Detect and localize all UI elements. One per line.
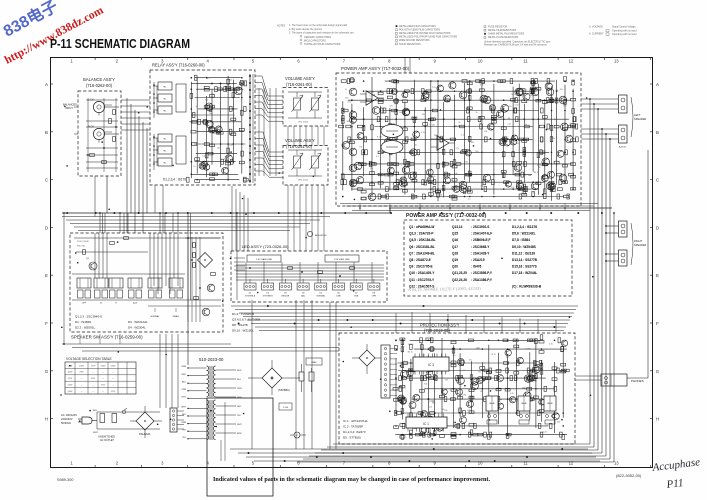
svg-text:1k: 1k	[476, 112, 478, 114]
power wires bottom	[230, 300, 600, 461]
power transformer T1 (510-2023-00)	[199, 357, 224, 440]
svg-text:A-B 0O: A-B 0O	[619, 146, 626, 149]
svg-text:LED ASS'Y (723-0026-00): LED ASS'Y (723-0026-00)	[242, 244, 289, 249]
block BALANCE ASS'Y (716-0262-00)	[78, 77, 121, 176]
svg-text:Q1,2,3 : 2SC3940-S: Q1,2,3 : 2SC3940-S	[75, 314, 102, 318]
wire bus left vertical	[127, 98, 147, 233]
svg-text:GRN: GRN	[181, 366, 186, 368]
wire bus mid horizontal	[231, 306, 578, 333]
svg-text:4.7k: 4.7k	[510, 393, 514, 395]
svg-text:10k: 10k	[529, 95, 532, 97]
speaker sw contact clusters	[77, 278, 183, 305]
svg-text:R4 1k: R4 1k	[538, 367, 543, 369]
svg-text:50/60Hz: 50/60Hz	[61, 421, 72, 425]
svg-text:FM 2.5A: FM 2.5A	[77, 245, 85, 248]
svg-text:1k: 1k	[415, 144, 417, 146]
svg-text:GRY: GRY	[237, 406, 242, 408]
svg-text:47u: 47u	[469, 360, 472, 362]
svg-text:0.22: 0.22	[543, 432, 547, 434]
balance assy wiring	[86, 98, 118, 172]
svg-text:1k: 1k	[463, 183, 465, 185]
svg-text:10k: 10k	[465, 161, 468, 163]
svg-text:0.22: 0.22	[348, 102, 352, 104]
svg-text:(822-3052-00): (822-3052-00)	[616, 473, 642, 478]
wires speaker-sw to transformer	[62, 212, 339, 461]
speaker and phones wires	[575, 99, 648, 380]
svg-text:0.1: 0.1	[524, 89, 527, 91]
svg-text:1M: 1M	[508, 118, 511, 120]
svg-text:P11: P11	[665, 477, 684, 491]
svg-text:PHONES: PHONES	[631, 379, 644, 383]
svg-text:: 2SC3902-S: : 2SC3902-S	[471, 225, 489, 229]
svg-text:D1,2,3,4: IS2473: D1,2,3,4: IS2473	[343, 430, 366, 434]
svg-text:R 120: R 120	[408, 344, 413, 346]
svg-text:Q3,4,5,6,7: SLF300B: Q3,4,5,6,7: SLF300B	[232, 318, 260, 322]
svg-text:330: 330	[452, 195, 455, 197]
svg-text:A: A	[45, 82, 48, 87]
svg-text:F: F	[45, 321, 48, 326]
svg-text:1k: 1k	[539, 167, 541, 169]
svg-text:680: 680	[499, 399, 502, 401]
svg-text:E: E	[656, 273, 659, 278]
svg-text:47u: 47u	[560, 89, 563, 91]
svg-text:VR1 10k-B: VR1 10k-B	[298, 122, 308, 124]
svg-text:: 2SB606-E,F: : 2SB606-E,F	[471, 238, 491, 242]
block POWER AMP ASS'Y (717-0032-00)	[336, 66, 581, 206]
svg-text:330: 330	[351, 122, 354, 124]
svg-text:Q7 : 2SA1349-BL: Q7 : 2SA1349-BL	[409, 251, 435, 255]
svg-text:47u: 47u	[206, 161, 209, 163]
svg-text:1k: 1k	[345, 89, 347, 91]
border frame and grid refs	[45, 58, 660, 468]
svg-text:WIRE WOUND RESISTORS: WIRE WOUND RESISTORS	[399, 39, 430, 42]
svg-text:2.2k: 2.2k	[432, 176, 436, 178]
svg-text:BALANCE ASS'Y: BALANCE ASS'Y	[83, 77, 115, 82]
svg-text:BLU: BLU	[182, 381, 187, 383]
svg-text:Q6 : 2SC3381-BL: Q6 : 2SC3381-BL	[409, 245, 435, 249]
svg-text:D2,3 : WZ091L: D2,3 : WZ091L	[75, 325, 96, 329]
svg-text:D1,2,3,4 : IS1376: D1,2,3,4 : IS1376	[512, 225, 537, 229]
svg-text:C 47: C 47	[369, 96, 373, 98]
svg-text:1k: 1k	[516, 401, 518, 403]
input arrows	[74, 106, 78, 108]
wires balance-relay	[121, 100, 150, 130]
svg-text:1M: 1M	[527, 382, 530, 384]
svg-text:D17,18 : WZ044L: D17,18 : WZ044L	[512, 271, 537, 275]
svg-text:2. Big spots denote the ground: 2. Big spots denote the ground.	[289, 28, 323, 31]
svg-text:560: 560	[524, 102, 527, 104]
svg-text:330: 330	[205, 100, 208, 102]
svg-text:22k: 22k	[453, 355, 456, 357]
svg-text:Q16: Q16	[452, 238, 458, 242]
svg-text:G: G	[45, 369, 49, 374]
svg-text:680: 680	[522, 387, 525, 389]
svg-text:POWER AMP ASS'Y (717-0032-00): POWER AMP ASS'Y (717-0032-00)	[341, 66, 410, 71]
svg-text:4.7k: 4.7k	[399, 188, 403, 190]
wire bus amp-to-protection	[340, 58, 598, 211]
svg-text:D1,2,3,4 : IS176: D1,2,3,4 : IS176	[163, 178, 186, 182]
svg-text:6.8k: 6.8k	[421, 99, 425, 101]
power amp dense circuitry	[339, 77, 578, 202]
svg-text:D1 : IS484N: D1 : IS484N	[75, 320, 91, 324]
balanced input jack A1	[88, 100, 119, 116]
block VOLUME ASS'Y lower (716-0261-00)	[283, 138, 328, 185]
svg-text:MICA CAPACITORS: MICA CAPACITORS	[304, 39, 326, 42]
relay RL2	[518, 396, 530, 424]
svg-text:HEAT: HEAT	[311, 361, 317, 364]
svg-text:FUSE RESISTOR: FUSE RESISTOR	[488, 26, 507, 29]
op-amp U1	[366, 91, 378, 105]
svg-text:D5 : S7TB(S): D5 : S7TB(S)	[343, 436, 361, 440]
svg-text:IC.1 : uPC1237HA: IC.1 : uPC1237HA	[343, 419, 368, 423]
svg-text:100: 100	[480, 391, 483, 393]
svg-text:: IS476: : IS476	[471, 265, 482, 269]
svg-text:SOLID RESISTORS: SOLID RESISTORS	[399, 43, 421, 46]
svg-text:220V: 220V	[68, 385, 73, 387]
svg-text:1M: 1M	[524, 175, 527, 177]
svg-text:SYSTEM A: SYSTEM A	[245, 295, 256, 298]
svg-text:C3 10: C3 10	[491, 354, 496, 356]
svg-text:R 120: R 120	[227, 79, 232, 81]
svg-text:250V 1/50UF: 250V 1/50UF	[77, 241, 90, 243]
svg-text:D: D	[656, 225, 659, 230]
svg-text:10k: 10k	[554, 119, 557, 121]
svg-text:560: 560	[511, 94, 514, 96]
phones jack	[601, 374, 644, 386]
protection bridge rectifier	[359, 350, 375, 366]
svg-text:D1,2 : TL5025-B: D1,2 : TL5025-B	[232, 312, 254, 316]
svg-text:IC.2 : TA7805P: IC.2 : TA7805P	[343, 425, 363, 429]
svg-text:(716-0261-00): (716-0261-00)	[286, 144, 313, 149]
svg-text:B: B	[45, 130, 48, 135]
svg-text:ADJUSTED: ADJUSTED	[315, 234, 327, 237]
svg-text:2.2k: 2.2k	[456, 148, 460, 150]
svg-text:10k: 10k	[454, 173, 457, 175]
svg-text:560: 560	[557, 421, 560, 423]
svg-text:BLK: BLK	[182, 414, 187, 416]
svg-text:R 120: R 120	[377, 136, 382, 138]
protection transistors	[456, 375, 535, 424]
block RELAY ASS'Y (716-0260-00)	[150, 63, 255, 186]
AC plug	[61, 413, 97, 425]
svg-text:D7,8 : IS584: D7,8 : IS584	[512, 238, 530, 242]
svg-text:G: G	[656, 369, 660, 374]
svg-text:(S5VB60): (S5VB60)	[278, 388, 290, 392]
block power amp parts table	[404, 213, 572, 296]
svg-text:INPUT: INPUT	[65, 106, 73, 110]
adjusted node	[307, 231, 312, 236]
handwritten pencil note	[408, 286, 481, 293]
svg-text:0.22: 0.22	[447, 139, 451, 141]
right speaker terminals	[619, 221, 647, 266]
svg-text:VOLTAGE SELECTION TABLE: VOLTAGE SELECTION TABLE	[66, 357, 113, 361]
svg-text:AC OUTLET: AC OUTLET	[100, 439, 115, 442]
dual FET Q2	[381, 141, 403, 154]
svg-text:XXX: XXX	[91, 378, 96, 380]
svg-text:330: 330	[233, 133, 236, 135]
svg-text:10k: 10k	[399, 112, 402, 114]
heat system box	[306, 358, 322, 365]
svg-text:13: 13	[614, 461, 619, 466]
protection connector ladder	[381, 345, 397, 398]
op-amp U2	[437, 136, 449, 150]
protection dense wiring	[395, 358, 397, 413]
svg-text:RIGHT: RIGHT	[634, 239, 642, 243]
svg-text:560: 560	[422, 114, 425, 116]
svg-text:0.1: 0.1	[463, 370, 466, 372]
svg-text:D3 : WZ31A2L: D3 : WZ31A2L	[128, 320, 148, 324]
svg-text:CERAMIC CAPACITORS: CERAMIC CAPACITORS	[304, 36, 331, 39]
svg-text:: 2SA1428-Y: : 2SA1428-Y	[471, 251, 490, 255]
voltage selection table	[65, 357, 136, 394]
svg-text:RED: RED	[237, 370, 242, 372]
svg-text:100V: 100V	[68, 372, 73, 374]
AC line components	[93, 408, 160, 442]
svg-text:C3 10: C3 10	[500, 109, 505, 111]
svg-text:0.22: 0.22	[515, 105, 519, 107]
svg-text:117V: 117V	[68, 378, 73, 380]
svg-text:RED: RED	[182, 374, 187, 376]
transformer leads	[181, 366, 242, 439]
svg-text:0.1: 0.1	[207, 78, 210, 80]
svg-text:560: 560	[563, 105, 566, 107]
svg-text:Q13,14: Q13,14	[452, 225, 463, 229]
svg-text:Q11 : 2SC2705-Y: Q11 : 2SC2705-Y	[409, 278, 435, 282]
legend notes	[277, 24, 637, 47]
svg-text:BLU: BLU	[237, 379, 242, 381]
svg-text:0.1: 0.1	[478, 348, 481, 350]
svg-text:15k: 15k	[370, 168, 373, 170]
svg-text:(716-0262-00): (716-0262-00)	[86, 83, 113, 88]
svg-text:10k: 10k	[441, 409, 444, 411]
svg-text:GRY: GRY	[182, 397, 187, 399]
svg-text:10k: 10k	[478, 371, 481, 373]
svg-text:D4 : WZ304L: D4 : WZ304L	[128, 325, 146, 329]
svg-text:3. The types of capacitors and: 3. The types of capacitors and resistors…	[289, 32, 355, 35]
svg-text:: 2SA1386-P,Y: : 2SA1386-P,Y	[471, 278, 493, 282]
svg-text:0.22: 0.22	[428, 407, 432, 409]
svg-text:100: 100	[217, 147, 220, 149]
bridge rectifier DSH4S41	[136, 412, 154, 430]
svg-text:4.7k: 4.7k	[516, 143, 520, 145]
connector CN1	[170, 408, 184, 432]
power amp parts list text	[409, 225, 542, 288]
svg-text:15k: 15k	[211, 94, 214, 96]
svg-text:BRIDGE: BRIDGE	[282, 296, 290, 298]
svg-text:Q18: Q18	[452, 251, 458, 255]
svg-text:VR2 10k-B: VR2 10k-B	[298, 180, 308, 182]
svg-text:2.2k: 2.2k	[444, 410, 448, 412]
svg-text:D9,10 : WZ150L: D9,10 : WZ150L	[232, 329, 254, 333]
svg-text:Q1 : uPA68HA-W: Q1 : uPA68HA-W	[409, 225, 434, 229]
volume attenuators VR1 VR2	[288, 92, 322, 124]
svg-text:Q10 : 2SA1405-Y: Q10 : 2SA1405-Y	[409, 271, 435, 275]
svg-text:WHT: WHT	[181, 407, 186, 409]
speaker sw right column	[185, 237, 221, 322]
svg-text:15k: 15k	[524, 124, 527, 126]
svg-text:Indicated values of parts in t: Indicated values of parts in the schemat…	[213, 477, 491, 483]
svg-text:1k: 1k	[193, 166, 195, 168]
svg-text:6.8k: 6.8k	[467, 410, 471, 412]
svg-text:Q19: Q19	[452, 258, 458, 262]
svg-text:AC 100/120V: AC 100/120V	[61, 413, 77, 417]
svg-text:WHT: WHT	[93, 432, 99, 434]
svg-text:1-15k: 1-15k	[283, 407, 288, 409]
svg-text:VOLUME ASS'Y: VOLUME ASS'Y	[285, 76, 315, 81]
svg-text:LINE: LINE	[336, 296, 341, 298]
mid parts list	[232, 312, 260, 333]
svg-text:560: 560	[475, 151, 478, 153]
svg-text:C3 10: C3 10	[429, 401, 434, 403]
svg-text:Q17: Q17	[452, 245, 458, 249]
relay assy components	[153, 74, 253, 183]
dual FET Q1	[381, 125, 403, 138]
svg-text:D13,14 : SS277B: D13,14 : SS277B	[512, 258, 538, 262]
svg-text:E: E	[45, 273, 48, 278]
svg-text:220/240V: 220/240V	[61, 417, 73, 421]
block VOLUME ASS'Y upper (716-0261-00)	[283, 76, 328, 126]
svg-text:13: 13	[614, 59, 619, 64]
speaker sw parts text	[75, 314, 148, 329]
svg-text:1. The heavy lines on the sche: 1. The heavy lines on the schematic desi…	[289, 24, 348, 27]
svg-text:4.7k: 4.7k	[421, 132, 425, 134]
block SPEAKER SW ASS'Y (716-0259-00)	[70, 233, 223, 340]
IC1	[406, 414, 447, 432]
svg-text:C: C	[45, 178, 48, 183]
svg-text:560: 560	[192, 114, 195, 116]
svg-text:OPR: OPR	[372, 296, 377, 298]
svg-text:XXX: XXX	[111, 391, 116, 393]
svg-text:560: 560	[345, 98, 348, 100]
svg-text:15k: 15k	[555, 90, 558, 92]
svg-text:1k: 1k	[196, 106, 198, 108]
bridge rectifier D (S5VB60)	[248, 360, 300, 395]
fuse FM2	[294, 432, 300, 438]
svg-text:D11,12 : IS2139: D11,12 : IS2139	[512, 251, 535, 255]
svg-text:R4 1k: R4 1k	[534, 172, 539, 174]
svg-text:1.5V GAIN LINE: 1.5V GAIN LINE	[256, 258, 272, 261]
svg-text:240V: 240V	[68, 391, 73, 393]
svg-text:4.7k: 4.7k	[549, 343, 553, 345]
svg-text:100: 100	[209, 113, 212, 115]
svg-text:0.1: 0.1	[210, 84, 213, 86]
svg-text:680: 680	[528, 175, 531, 177]
res label	[279, 403, 292, 410]
svg-text:(C) : KLWR9333S-B: (C) : KLWR9333S-B	[512, 284, 542, 288]
svg-text:: 2SA215: : 2SA215	[471, 258, 485, 262]
svg-text:XXX: XXX	[79, 372, 84, 374]
svg-text:100: 100	[471, 142, 474, 144]
svg-text:A. VOLTAGE: A. VOLTAGE	[589, 26, 603, 29]
svg-text:RELAY: RELAY	[489, 402, 496, 405]
block LED ASS'Y (723-0026-00)	[231, 244, 387, 302]
wire bus mid-left horizontal	[62, 176, 612, 365]
svg-text:1k: 1k	[479, 123, 481, 125]
svg-text:ORN: ORN	[237, 388, 242, 390]
svg-text:POWER AMP ASS'Y (717-0032-00: POWER AMP ASS'Y (717-0032-00)	[406, 213, 486, 219]
IC3	[413, 354, 449, 375]
svg-text:0.1: 0.1	[376, 156, 379, 158]
svg-text:R 120: R 120	[430, 125, 435, 127]
svg-text:SYSTEM B: SYSTEM B	[263, 296, 274, 298]
svg-text:0.1: 0.1	[468, 198, 471, 200]
wire mesh relay-volume	[255, 76, 283, 177]
svg-text:SPEAKER: SPEAKER	[634, 243, 646, 247]
svg-text:Q21,23,25: Q21,23,25	[452, 271, 467, 275]
svg-text:LEFT: LEFT	[634, 113, 641, 117]
svg-text:Resistors are CARBON FILM type: Resistors are CARBON FILM type, 1/4 watt…	[484, 44, 548, 47]
svg-text:SMALL: SMALL	[173, 315, 181, 318]
block PROTECTION ASS'Y (720-2019-00)	[339, 323, 575, 445]
relay RL1	[486, 396, 498, 424]
svg-text:1M: 1M	[506, 357, 509, 359]
cap C102	[309, 372, 314, 381]
svg-text:Signal Source Voltage: Signal Source Voltage	[612, 26, 636, 29]
svg-text:2.2k: 2.2k	[432, 87, 436, 89]
relay RL3	[544, 396, 556, 424]
cap C101	[299, 372, 304, 381]
svg-text:RELAY: RELAY	[547, 402, 554, 405]
svg-text:NORMAL: NORMAL	[151, 315, 161, 318]
svg-text:22k: 22k	[435, 376, 438, 378]
svg-text:2.2k: 2.2k	[511, 187, 515, 189]
svg-text:METALLIZED FILM CAPACITORS: METALLIZED FILM CAPACITORS	[399, 25, 436, 28]
svg-text:560: 560	[346, 121, 349, 123]
svg-text:220V: 220V	[101, 365, 106, 367]
svg-text:100V: 100V	[79, 365, 84, 367]
svg-text:D8 : SS17B: D8 : SS17B	[232, 323, 248, 327]
svg-text:SUB: SUB	[354, 296, 359, 298]
svg-text:D15,16 : SS277S: D15,16 : SS277S	[512, 265, 537, 269]
volume attenuators VR3 VR4	[288, 150, 322, 182]
svg-text:XXX: XXX	[101, 385, 106, 387]
svg-text:D: D	[45, 225, 48, 230]
svg-text:SPEAKER SW ASS'Y (716-0259-00): SPEAKER SW ASS'Y (716-0259-00)	[71, 335, 143, 340]
svg-text:240V: 240V	[111, 365, 116, 367]
svg-text:D5,6 : WZ114ZL: D5,6 : WZ114ZL	[512, 232, 536, 236]
svg-text:Q20: Q20	[452, 265, 458, 269]
svg-text:C: C	[656, 178, 659, 183]
svg-text:BRN: BRN	[182, 422, 187, 424]
svg-text:BLK: BLK	[93, 410, 98, 412]
svg-text:VIO: VIO	[182, 429, 186, 431]
left speaker terminals	[619, 95, 647, 149]
svg-text:A. CURRENT: A. CURRENT	[589, 33, 604, 36]
svg-text:47u: 47u	[390, 106, 393, 108]
svg-text:C 47: C 47	[229, 145, 233, 147]
svg-text:47u: 47u	[395, 180, 398, 182]
svg-text:TANTALUM SOLID CAPACITORS: TANTALUM SOLID CAPACITORS	[304, 43, 341, 46]
svg-text:1M: 1M	[445, 380, 448, 382]
svg-text:SPEAKER: SPEAKER	[634, 117, 646, 121]
handwritten P11	[665, 477, 684, 491]
svg-text:Q4,5 : 2SK184-BL: Q4,5 : 2SK184-BL	[409, 238, 436, 242]
svg-text:WHT: WHT	[237, 424, 242, 426]
svg-text:510-2023-00: 510-2023-00	[199, 357, 224, 362]
svg-text:22k: 22k	[528, 349, 531, 351]
svg-text:: 2SC3668-Y: : 2SC3668-Y	[471, 245, 490, 249]
svg-text:B: B	[656, 130, 659, 135]
svg-text:47u: 47u	[564, 128, 567, 130]
svg-text:Q15: Q15	[452, 232, 458, 236]
svg-text:Q22,24,26: Q22,24,26	[452, 278, 467, 282]
svg-text:H: H	[656, 417, 659, 422]
svg-text:RELAY: RELAY	[521, 402, 528, 405]
svg-text:3.3k: 3.3k	[424, 384, 428, 386]
svg-text:IC 3: IC 3	[428, 363, 434, 367]
svg-text:10: 10	[478, 59, 483, 64]
power amp transistors	[349, 88, 573, 190]
